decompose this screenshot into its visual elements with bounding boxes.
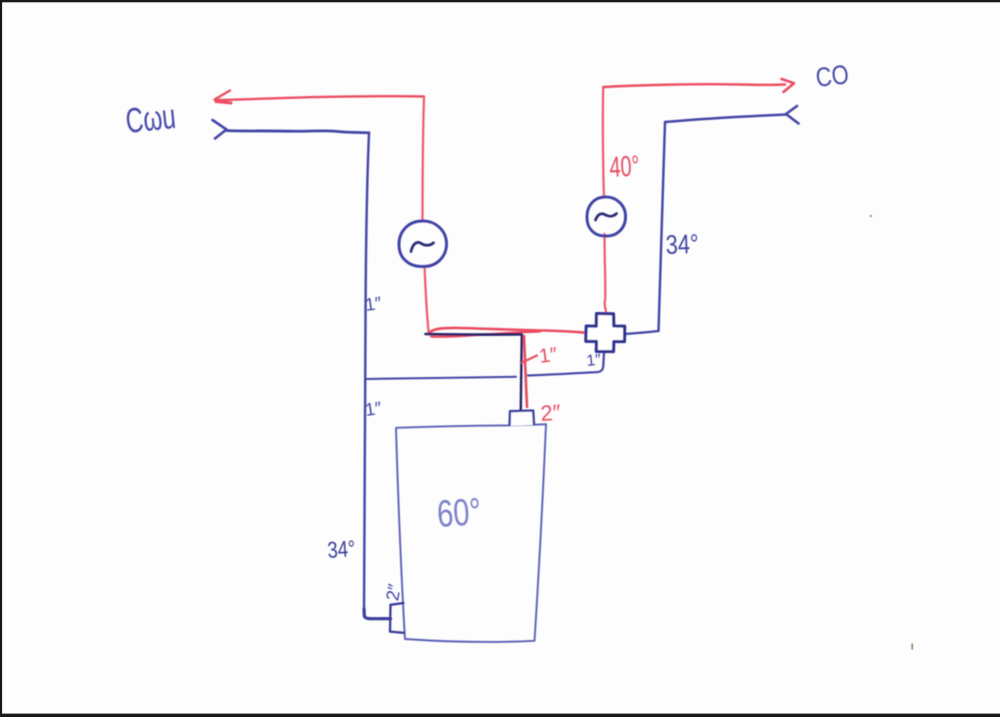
wire: red from pump P2 top up to top corner	[603, 87, 604, 197]
tank (60° storage) outline	[396, 424, 546, 642]
svg-text:1″: 1″	[364, 293, 384, 315]
wire: blue bottom corner into left stub	[364, 609, 391, 619]
svg-text:1″: 1″	[364, 398, 384, 420]
wire: red horizontal corner loop to mixing cross (messy overdraw)	[429, 328, 587, 337]
wire: blue CWU return arrow top-left	[213, 120, 370, 139]
svg-text:1″: 1″	[586, 352, 603, 370]
speck top-right	[870, 215, 872, 217]
scan border bottom	[0, 714, 1000, 717]
scan border left	[0, 0, 2, 717]
svg-text:34°: 34°	[327, 535, 357, 563]
wire: blue from cross right to right riser	[625, 331, 659, 334]
pump P2 (circle with tilde)	[587, 197, 626, 236]
speck bottom-right (brown)	[911, 644, 913, 650]
svg-text:40°: 40°	[609, 150, 641, 184]
wire: blue right vertical riser	[659, 122, 666, 331]
scan border top	[0, 0, 1000, 2]
wire: blue mid horizontal branch (left part)	[366, 377, 517, 379]
wire: red tick for 1" label	[522, 356, 537, 363]
svg-text:1″: 1″	[538, 344, 559, 368]
svg-text:2″: 2″	[540, 400, 562, 426]
wire: navy vertical down to tank top stub	[521, 335, 522, 411]
wire: red vertical overdraw beside navy	[524, 336, 527, 407]
tank left stub 2"	[390, 603, 404, 633]
svg-text:60°: 60°	[436, 491, 483, 536]
wire: blue top-right horizontal to open arrow	[665, 115, 786, 123]
svg-text:CO: CO	[814, 59, 850, 93]
wire: red from pump P1 down to corner	[425, 266, 429, 332]
pump P1 (circle with tilde)	[399, 221, 447, 267]
svg-text:Cωu: Cωu	[124, 97, 178, 141]
wire: red horizontal to CO arrow	[603, 79, 794, 92]
wire: red from cross top up to pump P2	[605, 234, 607, 314]
wire: navy horizontal under red (overdraw)	[426, 333, 522, 336]
svg-text:34°: 34°	[665, 229, 699, 260]
wire: red CWU supply arrow top-left	[215, 91, 425, 104]
mixing cross junction	[586, 314, 625, 352]
wire: blue left vertical main riser	[364, 133, 369, 612]
wire: blue open arrowhead top-right	[786, 106, 799, 124]
wire: red vertical down to pump P1	[423, 97, 425, 222]
tank top stub 2"	[510, 411, 535, 427]
wire: blue mid horizontal branch (right part) to cross bottom	[528, 353, 604, 376]
